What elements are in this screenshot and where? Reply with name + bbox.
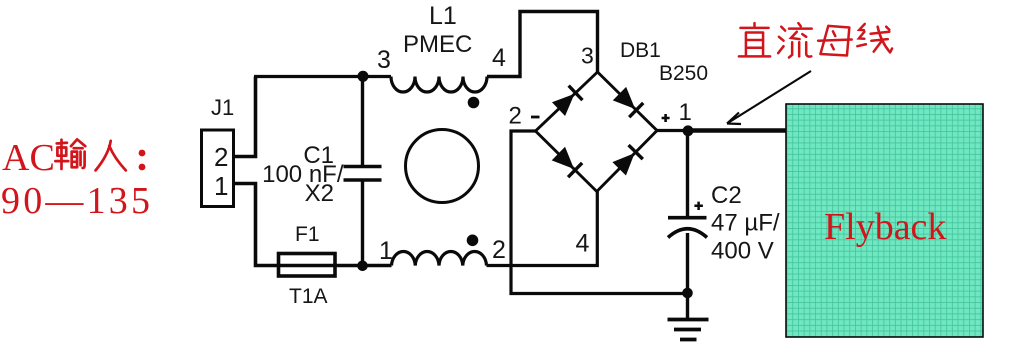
arrow annotation [727, 71, 811, 124]
node junction bottom [357, 261, 368, 272]
wire bottom rail to bridge pin4 [487, 192, 598, 266]
ground [668, 293, 709, 340]
svg-text:2: 2 [492, 236, 506, 264]
svg-text:F1: F1 [295, 223, 320, 246]
svg-text:DB1: DB1 [620, 39, 661, 62]
core circle [406, 130, 479, 203]
wire J1 pin1 to bottom rail [233, 184, 392, 266]
svg-text:T1A: T1A [289, 285, 328, 308]
svg-text:2: 2 [214, 142, 228, 172]
capacitor C2 [668, 131, 707, 293]
wire J1 pin2 to top rail [233, 77, 256, 157]
node junction top [358, 71, 369, 82]
connector J1 [202, 130, 234, 207]
inductor L1 bottom winding [392, 251, 487, 265]
label DC bus (red) [739, 23, 892, 57]
wire bridge plus to node [657, 129, 688, 132]
svg-text:L1: L1 [429, 2, 457, 30]
svg-text:90—135: 90—135 [1, 180, 153, 222]
node ground junction [682, 288, 693, 299]
diode D3 (left-bottom) [551, 146, 582, 177]
svg-text:3: 3 [581, 43, 594, 69]
svg-text:AC: AC [2, 137, 55, 179]
label AC input (red) [1, 137, 153, 222]
fuse F1 [279, 254, 336, 277]
inductor L1 top winding [391, 77, 487, 93]
svg-text:47 µF/: 47 µF/ [711, 210, 780, 237]
svg-text:400 V: 400 V [711, 238, 774, 265]
flyback block [786, 104, 983, 337]
wire bridge minus to ground rail [511, 131, 685, 294]
svg-text:3: 3 [377, 46, 391, 74]
node DC bus junction [683, 125, 694, 136]
svg-text:2: 2 [509, 103, 522, 130]
wire L1 pin4 step up to bridge [487, 12, 598, 77]
wire top rail [254, 75, 391, 78]
diode D2 (top-right) [612, 86, 643, 117]
diode D4 (bottom-right) [612, 145, 643, 176]
svg-text:J1: J1 [211, 95, 234, 120]
bridge DB1 outline [536, 72, 658, 192]
minus sign (bridge) [531, 116, 540, 119]
polarity dot bottom winding [467, 235, 479, 247]
svg-text:B250: B250 [659, 62, 708, 85]
svg-text:X2: X2 [305, 180, 334, 207]
svg-text:4: 4 [576, 230, 590, 258]
polarity dot top winding [468, 97, 480, 109]
diode D1 (left-top) [552, 86, 583, 117]
svg-text:PMEC: PMEC [403, 31, 472, 58]
svg-text:4: 4 [492, 44, 506, 72]
svg-text:Flyback: Flyback [824, 206, 946, 248]
plus sign (bridge) [662, 114, 670, 122]
svg-text:C2: C2 [711, 182, 742, 209]
svg-text:1: 1 [214, 171, 228, 201]
capacitor C1 [344, 77, 382, 266]
svg-text:1: 1 [679, 99, 692, 126]
wire DC bus (thick) [688, 128, 786, 133]
plus sign (C2) [694, 202, 703, 210]
